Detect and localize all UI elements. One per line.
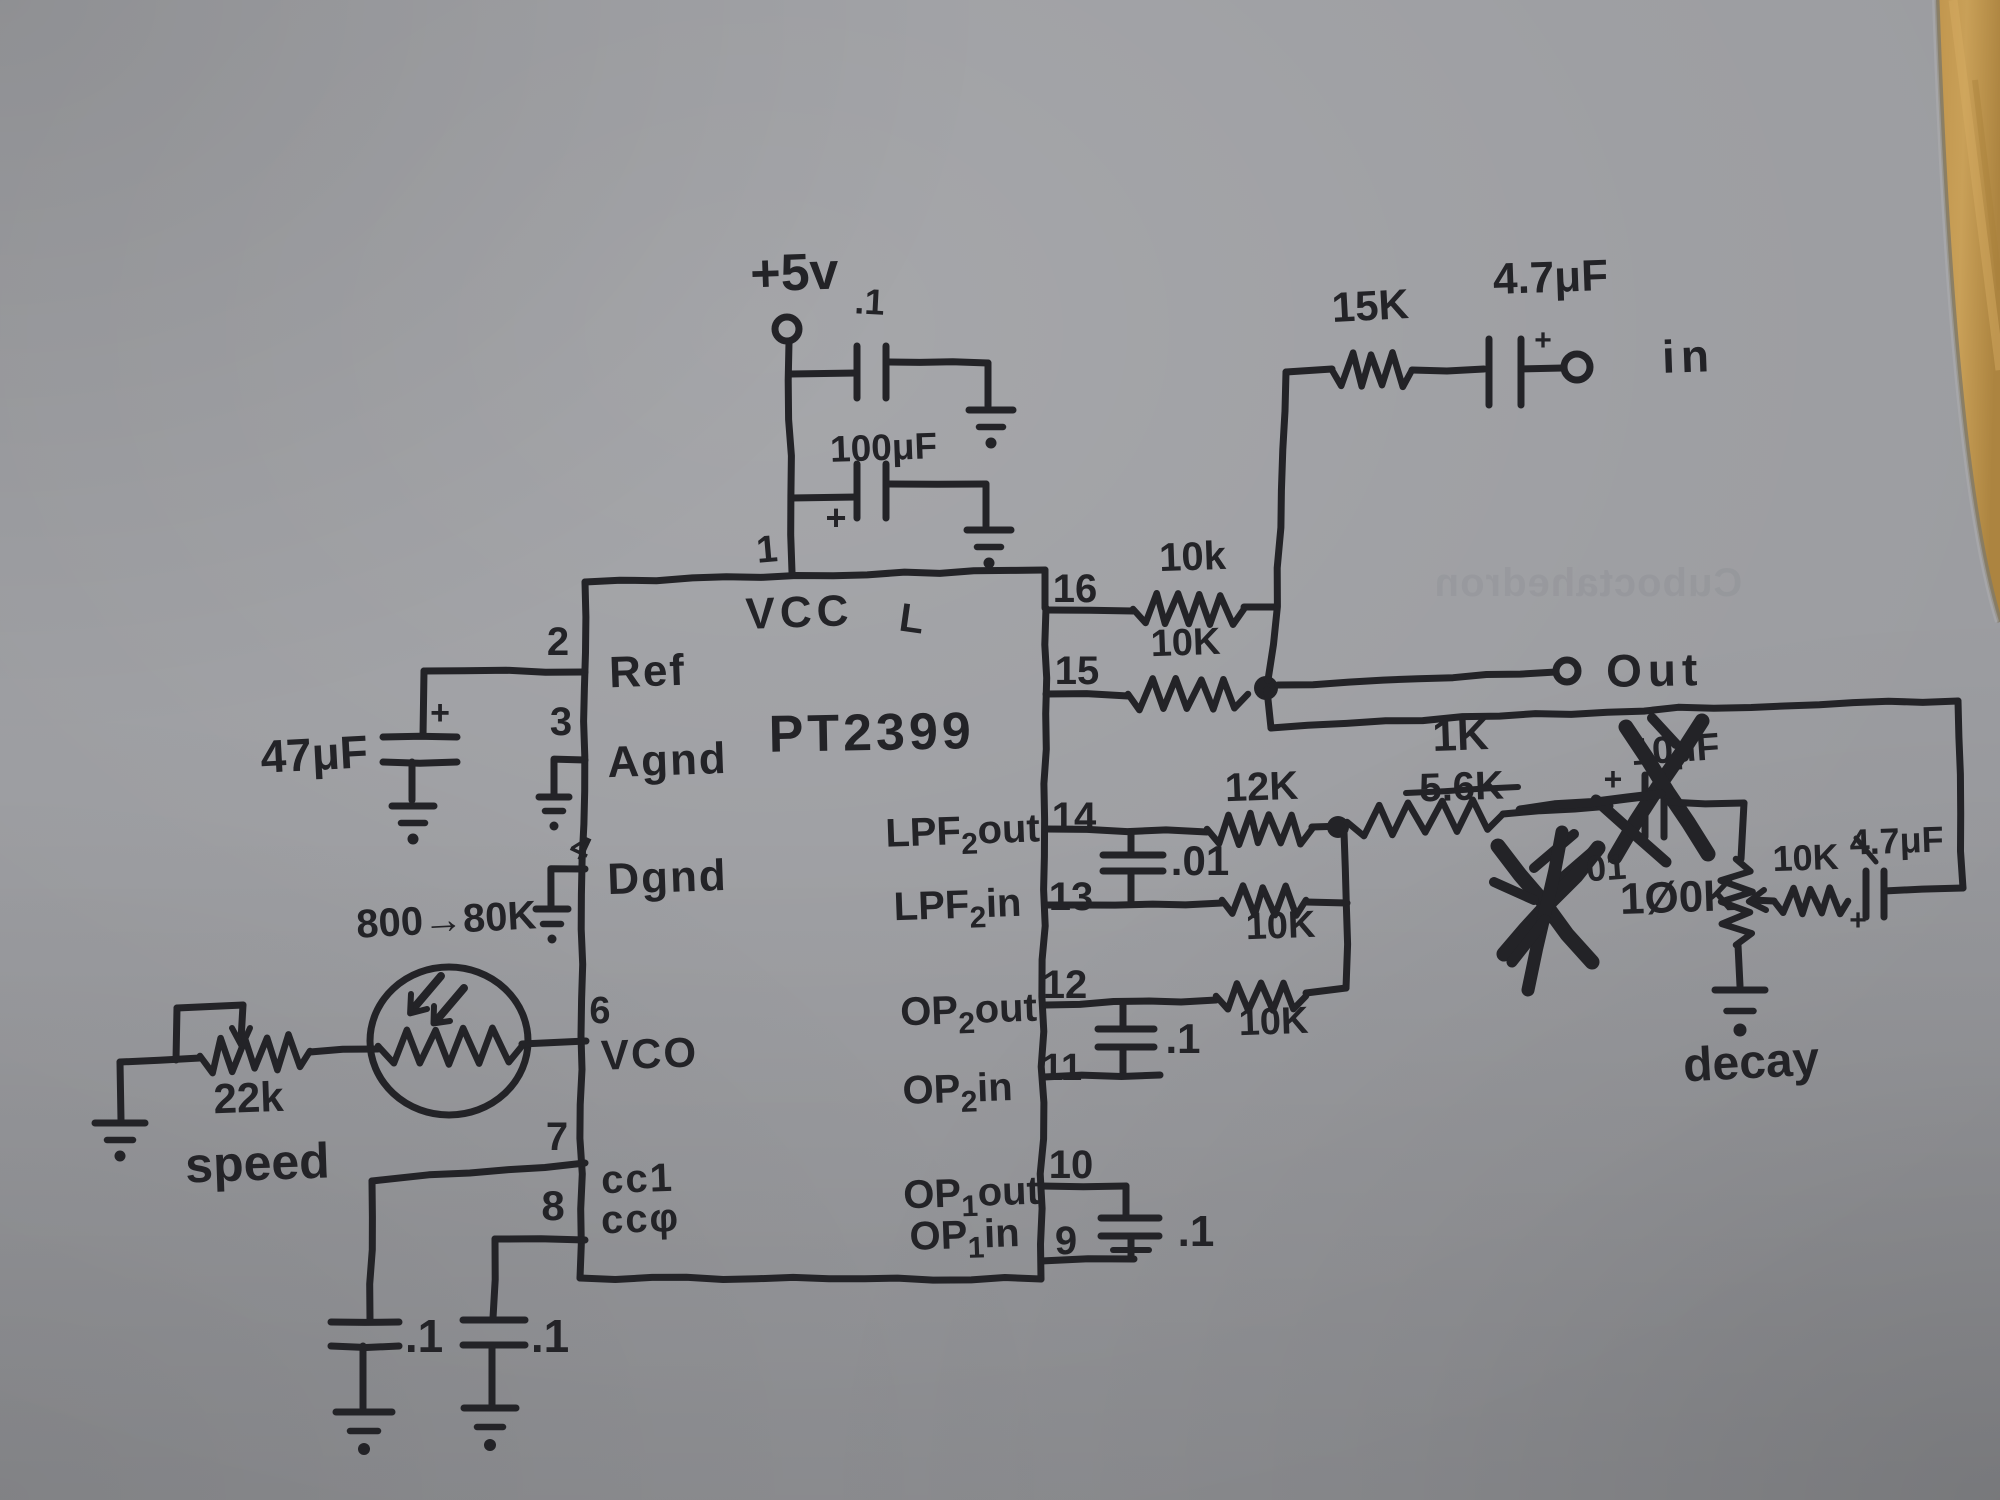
node junction dot <box>1254 676 1278 700</box>
svg-text:decay: decay <box>1682 1032 1821 1092</box>
svg-text:2: 2 <box>547 620 569 664</box>
wire vertical 12K-to-10K <box>1344 832 1348 988</box>
svg-text:+: + <box>1604 761 1623 797</box>
resistor R-12K <box>1207 813 1312 845</box>
svg-text:speed: speed <box>184 1133 330 1194</box>
wire pin14 <box>1046 829 1207 832</box>
capacitor C8 .1 <box>463 1320 525 1406</box>
svg-text:1: 1 <box>755 528 780 572</box>
table edge (decorative) <box>1934 0 2000 622</box>
wire 10K-12 to vertical <box>1306 988 1346 993</box>
wire LDR to pin 6 <box>522 1041 586 1044</box>
wire +5v vertical to pin 1 <box>788 342 792 572</box>
wire pin3 to ground <box>554 759 585 795</box>
wire pin8 to C8 <box>493 1239 585 1318</box>
resistor R-1K <box>1347 800 1503 836</box>
resistor R-10K-12 <box>1216 983 1306 1011</box>
ground at pin 4 <box>536 909 568 944</box>
IC U1 internal mark L <box>897 596 927 643</box>
svg-text:VCC: VCC <box>745 586 855 639</box>
terminal IN <box>1564 354 1590 380</box>
potentiometer R-100K value <box>1619 871 1736 924</box>
svg-text:+: + <box>1534 324 1552 357</box>
resistor R-10K-13 <box>1222 886 1306 916</box>
svg-text:12K: 12K <box>1224 764 1299 811</box>
ground at 22k pot <box>95 1123 145 1162</box>
node +5V label <box>749 242 839 303</box>
capacitor C11 .1 <box>1098 1003 1154 1075</box>
IC pin name OP1in <box>909 1211 1021 1267</box>
wire 12K to node <box>1312 826 1344 827</box>
resistor R-10K-decay <box>1774 888 1848 914</box>
capacitor C9 value 4.7µF crossed <box>1849 818 1944 862</box>
capacitor C10 .01 <box>1103 832 1163 901</box>
pin 8 number <box>541 1182 564 1229</box>
IC pin name VCO <box>600 1028 699 1078</box>
svg-text:11: 11 <box>1042 1047 1082 1089</box>
wire pin12 <box>1046 1000 1216 1005</box>
capacitor C4 4.7µF <box>1489 339 1521 405</box>
capacitor C4 value 4.7µF <box>1492 251 1609 304</box>
LDR R-LDR circle <box>370 967 528 1115</box>
capacitor C7 value .1 <box>405 1310 443 1362</box>
svg-text:VCO: VCO <box>600 1028 699 1078</box>
wire pin9 <box>1041 1259 1134 1261</box>
IC pin name ccφ <box>600 1196 681 1243</box>
resistor old value 5.6K crossed <box>1406 764 1518 811</box>
svg-text:1Ø0K: 1Ø0K <box>1619 871 1736 924</box>
svg-text:7: 7 <box>546 1115 568 1159</box>
capacitor C12 .1 <box>1101 1218 1159 1258</box>
wire input branch vertical <box>1268 372 1286 680</box>
resistor R-1K value <box>1432 710 1490 761</box>
resistor R-10k-16 value <box>1158 534 1227 580</box>
wire junction to out <box>1278 672 1556 685</box>
svg-text:+: + <box>430 694 450 732</box>
svg-text:3: 3 <box>550 700 572 744</box>
svg-text:10K: 10K <box>1245 904 1317 948</box>
capacitor C3 47µF <box>383 736 457 800</box>
resistor R-15K value <box>1331 280 1410 331</box>
svg-text:1K: 1K <box>1432 710 1490 761</box>
capacitor C2 100µF with wires <box>791 464 986 526</box>
wire 1K to crossed cap <box>1503 806 1610 814</box>
IC U1 label PT2399 <box>768 702 975 764</box>
ground for C2 <box>967 530 1011 569</box>
svg-text:.01: .01 <box>1171 837 1229 884</box>
svg-text:22k: 22k <box>213 1073 285 1122</box>
svg-text:Ref: Ref <box>608 646 687 698</box>
svg-text:ccφ: ccφ <box>600 1196 681 1243</box>
svg-text:10K: 10K <box>1238 1000 1310 1044</box>
pin 4 number <box>564 827 597 869</box>
wire 15K to C4 <box>1412 369 1484 371</box>
pin 6 number <box>589 990 610 1032</box>
IC pin name OP2in <box>902 1065 1014 1121</box>
LDR R-LDR resistor <box>378 1028 522 1065</box>
resistor R-10K-13 value <box>1245 904 1317 948</box>
capacitor C1 value .1 <box>854 280 886 323</box>
svg-text:10K: 10K <box>1772 836 1839 879</box>
resistor R-10K-12 value <box>1238 1000 1310 1044</box>
wire pot bottom to ground <box>1738 945 1740 986</box>
wire pin13 <box>1046 903 1222 905</box>
polarity + of C4 <box>1534 324 1552 357</box>
polarity + of C3 <box>430 694 450 732</box>
IC U1 PT2399 body <box>580 570 1047 1280</box>
svg-text:.1: .1 <box>1178 1207 1215 1256</box>
terminal +5V <box>775 317 799 341</box>
pin 15 number <box>1055 649 1100 693</box>
node dot 12K/1K <box>1327 816 1349 838</box>
terminal OUT <box>1556 660 1578 682</box>
wire crossed cap to 100K pot <box>1668 802 1744 859</box>
svg-text:Agnd: Agnd <box>606 734 728 787</box>
svg-text:4.7μF: 4.7μF <box>1492 251 1609 304</box>
polarity + of C9 <box>1849 904 1867 937</box>
svg-text:15: 15 <box>1055 649 1100 693</box>
pin 12 number <box>1043 963 1088 1007</box>
wire feedback bus <box>1267 690 1963 891</box>
svg-text:+: + <box>1849 904 1867 937</box>
pin 2 number <box>547 620 569 664</box>
svg-text:800→80K: 800→80K <box>355 893 537 946</box>
svg-text:10K: 10K <box>1150 621 1222 665</box>
svg-text:12: 12 <box>1043 963 1088 1007</box>
svg-text:PT2399: PT2399 <box>768 702 975 764</box>
resistor R-10k-16 <box>1133 593 1244 625</box>
resistor R-22k zigzag <box>200 1034 310 1073</box>
pin 14 number <box>1052 795 1097 839</box>
pin 7 number <box>546 1115 568 1159</box>
wire corner to 15K <box>1286 369 1332 372</box>
svg-text:in: in <box>1661 329 1716 383</box>
resistor R-10k-15 value <box>1150 621 1222 665</box>
pin 10 number <box>1049 1143 1094 1187</box>
LDR value 800→80K <box>355 893 537 946</box>
svg-text:8: 8 <box>541 1182 564 1229</box>
svg-text:10k: 10k <box>1158 534 1227 580</box>
IC pin name OP2out <box>899 986 1037 1043</box>
ground at pin 3 <box>539 797 569 831</box>
svg-text:10: 10 <box>1049 1143 1094 1187</box>
ground for C1 <box>969 410 1013 449</box>
pot function label speed <box>184 1133 330 1194</box>
IC pin name Ref <box>608 646 687 698</box>
svg-text:.1: .1 <box>531 1310 569 1362</box>
capacitor C10 value .01 <box>1171 837 1229 884</box>
wire pin10 to C12 <box>1041 1186 1126 1216</box>
svg-text:+5v: +5v <box>749 242 839 303</box>
capacitor crossed-out 10µF <box>1596 718 1721 862</box>
resistor R-12K value <box>1224 764 1299 811</box>
capacitor C8 value .1 <box>531 1310 569 1362</box>
pin 16 number <box>1053 567 1098 611</box>
pot function label decay <box>1682 1032 1821 1092</box>
wire LDR to pot <box>310 1049 378 1052</box>
svg-text:13: 13 <box>1049 875 1094 919</box>
wire pin4 to ground <box>551 869 585 906</box>
capacitor C3 value 47µF <box>259 725 369 783</box>
svg-text:Out: Out <box>1606 643 1704 697</box>
capacitor C1 .1 with wires <box>791 346 988 406</box>
wire pin11 <box>1044 1075 1160 1077</box>
22k pot wiper <box>176 1005 250 1060</box>
svg-text:.1: .1 <box>405 1310 443 1362</box>
svg-text:6: 6 <box>589 990 610 1032</box>
ground at decay pot <box>1715 990 1765 1037</box>
IC pin name LPF2in <box>893 881 1023 937</box>
capacitor C7 .1 <box>331 1322 399 1408</box>
ground for C3 <box>392 806 434 845</box>
pin 13 number <box>1049 875 1094 919</box>
capacitor C9 4.7µF <box>1866 871 1884 917</box>
IC U1 pin 1 name VCC <box>745 586 855 639</box>
capacitor C2 value 100µF <box>829 425 937 470</box>
wire pin15 to resistor <box>1046 694 1128 696</box>
IC pin name Dgnd <box>606 851 728 904</box>
pin 9 number <box>1055 1219 1077 1263</box>
svg-text:.1: .1 <box>1165 1015 1200 1062</box>
wire pin2 to C3 <box>423 670 585 736</box>
svg-text:.1: .1 <box>854 280 886 323</box>
potentiometer R-100K <box>1721 859 1753 945</box>
capacitor C11 value .1 <box>1165 1015 1200 1062</box>
capacitor crossed-out .01 <box>1494 794 1661 990</box>
IC pin name cc1 <box>600 1156 674 1203</box>
svg-text:+: + <box>825 497 846 538</box>
ground for C8 <box>464 1408 516 1451</box>
svg-text:15K: 15K <box>1331 280 1410 331</box>
capacitor C12 value .1 <box>1178 1207 1215 1256</box>
svg-text:47μF: 47μF <box>259 725 369 783</box>
wire 13 row to vertical <box>1306 902 1347 903</box>
terminal label in <box>1661 329 1716 383</box>
polarity + of C2 <box>825 497 846 538</box>
wire pin7 to C7 <box>370 1163 585 1320</box>
IC pin name Agnd <box>606 734 728 787</box>
pin 3 number <box>550 700 572 744</box>
pot value 22k <box>213 1073 285 1122</box>
pin 11 number <box>1042 1047 1082 1089</box>
resistor R-15K <box>1332 352 1412 387</box>
LDR arrows <box>410 976 464 1023</box>
pin 1 number <box>755 528 780 572</box>
terminal label out <box>1606 643 1704 697</box>
svg-text:4.7μF: 4.7μF <box>1849 818 1944 862</box>
paper bleed-through text (decorative) <box>1434 561 1743 605</box>
IC pin name OP1out <box>902 1169 1040 1226</box>
wire pot left to ground <box>120 1058 200 1120</box>
resistor R-10K-decay value <box>1772 836 1839 879</box>
wire pin16 to resistor <box>1046 607 1277 611</box>
svg-text:16: 16 <box>1053 567 1098 611</box>
IC pin name LPF2out <box>885 806 1041 863</box>
ground for C7 <box>336 1412 392 1455</box>
100K pot wiper <box>1749 890 1774 910</box>
wire C4 to in terminal <box>1521 368 1563 369</box>
resistor R-10k-15 <box>1128 678 1248 710</box>
svg-text:Dgnd: Dgnd <box>606 851 728 904</box>
svg-text:Cuboctahedron: Cuboctahedron <box>1434 561 1743 605</box>
